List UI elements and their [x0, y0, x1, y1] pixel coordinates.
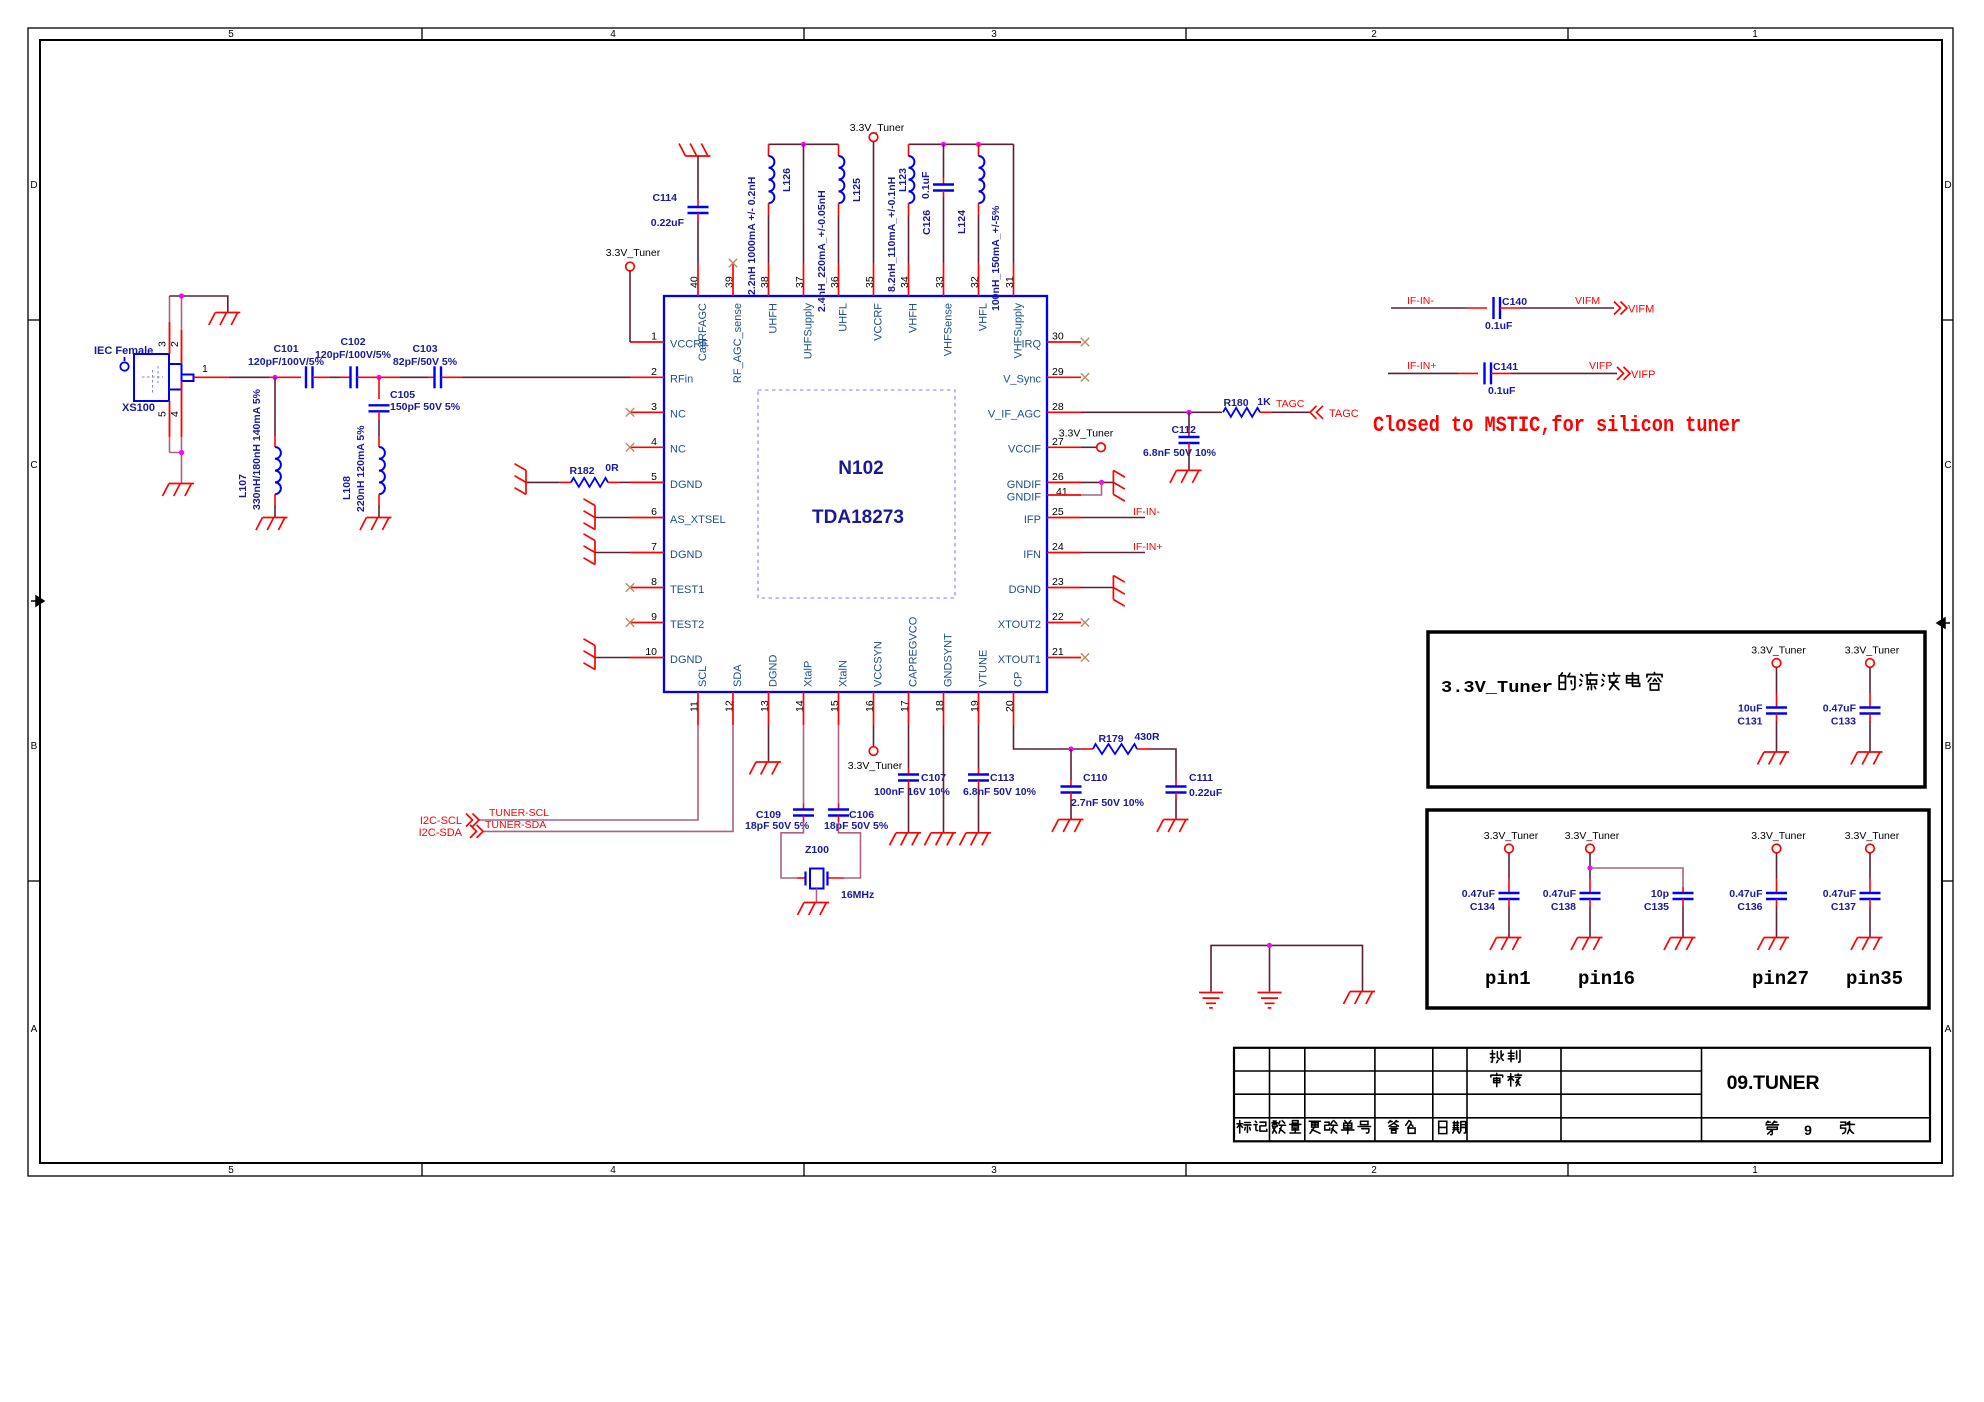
svg-text:5: 5 [228, 1165, 234, 1176]
port VIFM [1614, 302, 1627, 315]
no-connect pin21 [1081, 653, 1089, 661]
svg-text:CAPREGVCO: CAPREGVCO [908, 616, 920, 687]
svg-text:VIFM: VIFM [1575, 295, 1600, 307]
capacitor C103 [435, 366, 442, 388]
svg-text:C141: C141 [1493, 361, 1518, 373]
svg-text:0.47uF: 0.47uF [1823, 888, 1857, 900]
ground C110 [1052, 820, 1084, 833]
svg-text:330nH/180nH 140mA 5%: 330nH/180nH 140mA 5% [251, 388, 263, 510]
svg-text:22: 22 [1052, 611, 1064, 623]
wire SCL run [478, 725, 698, 820]
wire C102 to C103 [357, 376, 379, 378]
wire C113 to ground [978, 781, 980, 788]
wire pin20 CP run [1014, 725, 1082, 749]
capacitor C109 [793, 810, 814, 816]
svg-text:3.3V_Tuner: 3.3V_Tuner [1484, 830, 1539, 842]
svg-text:82pF/50V 5%: 82pF/50V 5% [393, 356, 458, 368]
wire ground tie bus [1211, 945, 1363, 991]
node shield bottom [179, 450, 184, 455]
svg-text:3: 3 [991, 29, 997, 40]
svg-text:3.3V_Tuner: 3.3V_Tuner [1845, 830, 1900, 842]
wire pin23 to ground [1081, 587, 1113, 589]
svg-text:1: 1 [202, 363, 208, 375]
wire C126 to pin33 [943, 191, 945, 198]
capacitor C113 [968, 775, 989, 781]
svg-text:120pF/100V/5%: 120pF/100V/5% [315, 349, 392, 361]
ground C112 [1170, 470, 1202, 483]
svg-text:0.22uF: 0.22uF [1189, 787, 1223, 799]
svg-text:VCCSYN: VCCSYN [873, 641, 885, 687]
svg-text:pin35: pin35 [1846, 968, 1903, 990]
svg-text:7: 7 [651, 541, 657, 553]
ground pin13 [750, 762, 782, 775]
svg-text:2: 2 [1371, 29, 1377, 40]
svg-text:D: D [1944, 180, 1951, 191]
svg-text:Closed to MSTIC,for silicon tu: Closed to MSTIC,for silicon tuner [1373, 413, 1741, 438]
svg-text:GNDIF: GNDIF [1007, 479, 1042, 491]
ground pin23 fork [1113, 576, 1125, 607]
inductor L125 stub top [838, 144, 840, 156]
wire 3.3V to pin35 [873, 142, 875, 263]
capacitor C111 [1166, 787, 1187, 793]
svg-text:120pF/100V/5%: 120pF/100V/5% [248, 356, 325, 368]
svg-text:C137: C137 [1831, 901, 1856, 913]
svg-text:1K: 1K [1257, 396, 1271, 408]
wire C105 to L108 [378, 411, 380, 420]
capacitor C131 [1766, 708, 1787, 714]
svg-text:24: 24 [1052, 541, 1064, 553]
zone labels [30, 29, 1951, 1176]
svg-text:8.2nH_110mA_+/-0.1nH: 8.2nH_110mA_+/-0.1nH [886, 177, 898, 292]
note box 3.3V filter caps [1428, 632, 1925, 787]
connector XS100 inner dashed marks [142, 366, 163, 393]
IC pin stubs right [1047, 342, 1081, 658]
svg-text:XtalN: XtalN [838, 660, 850, 687]
wire L125 to pin36 [838, 203, 840, 215]
svg-text:4: 4 [651, 436, 657, 448]
wire C114 to pin40 [697, 213, 699, 221]
IC pin stubs left [630, 342, 664, 658]
node CP junction [1068, 746, 1073, 751]
inductor L124 [979, 156, 985, 203]
svg-text:VCCRF: VCCRF [873, 303, 885, 341]
svg-text:IF-IN-: IF-IN- [1407, 295, 1434, 307]
svg-text:SCL: SCL [697, 666, 709, 687]
svg-text:C134: C134 [1470, 901, 1495, 913]
svg-text:0.47uF: 0.47uF [1729, 888, 1763, 900]
svg-text:0R: 0R [605, 462, 619, 474]
ground pin7 wire [595, 552, 630, 554]
svg-text:pin16: pin16 [1578, 968, 1635, 990]
svg-text:0.47uF: 0.47uF [1823, 703, 1857, 715]
svg-text:VHFSupply: VHFSupply [1013, 303, 1025, 359]
svg-text:DGND: DGND [768, 655, 780, 687]
svg-text:DGND: DGND [670, 479, 702, 491]
no-connect pin8 [626, 583, 634, 591]
svg-text:RFin: RFin [670, 374, 693, 386]
wire C135 to ground [1682, 899, 1684, 906]
svg-text:VIFP: VIFP [1631, 369, 1655, 381]
wire pin26 to ground [1081, 481, 1113, 483]
no-connect pin39 [729, 259, 737, 267]
svg-text:C138: C138 [1551, 901, 1576, 913]
title sheet number [1766, 1121, 1779, 1135]
svg-text:3.3V_Tuner: 3.3V_Tuner [1565, 830, 1620, 842]
node C138 link [1587, 865, 1592, 870]
wire connector shield verticals [169, 296, 171, 354]
svg-text:2: 2 [651, 366, 657, 378]
svg-text:28: 28 [1052, 401, 1064, 413]
wire C134 to ground [1508, 899, 1510, 907]
wire C136 upper [1776, 853, 1778, 879]
svg-text:3.3V_Tuner: 3.3V_Tuner [848, 760, 903, 772]
svg-text:10: 10 [645, 646, 657, 658]
svg-text:TAGC: TAGC [1276, 398, 1305, 410]
svg-text:C: C [1944, 460, 1951, 471]
svg-text:UHFSupply: UHFSupply [803, 303, 815, 360]
connector XS100 IEC Female body [134, 354, 194, 401]
svg-text:VHFL: VHFL [978, 303, 990, 331]
ground pin19 [960, 833, 992, 846]
capacitor C138 [1580, 893, 1601, 899]
svg-text:0.47uF: 0.47uF [1462, 888, 1496, 900]
svg-text:CP: CP [1013, 672, 1025, 687]
capacitor C110 [1061, 787, 1082, 793]
ground earth left [1199, 993, 1223, 1008]
svg-text:D: D [30, 180, 37, 191]
svg-text:430R: 430R [1134, 731, 1160, 743]
wire L124 to pin32 [978, 203, 980, 215]
svg-text:26: 26 [1052, 471, 1064, 483]
svg-text:4: 4 [169, 411, 181, 417]
wire pin17 to C107 [908, 725, 910, 768]
svg-text:C101: C101 [273, 343, 298, 355]
svg-text:DGND: DGND [670, 654, 702, 666]
svg-text:3.3V_Tuner: 3.3V_Tuner [1441, 678, 1553, 697]
node GNDIF junction [1099, 480, 1104, 485]
port VIFP [1617, 367, 1630, 380]
capacitor C107 [898, 775, 919, 781]
svg-text:I2C-SDA: I2C-SDA [419, 827, 463, 839]
node top bus pin33 [941, 142, 946, 147]
svg-text:V_Sync: V_Sync [1003, 374, 1041, 386]
wire IF-IN- to C140 [1391, 307, 1467, 309]
svg-text:C133: C133 [1831, 716, 1856, 728]
svg-text:R180: R180 [1223, 397, 1248, 409]
svg-text:C103: C103 [412, 343, 437, 355]
capacitor C133 [1860, 708, 1881, 714]
ground pin10 wire [595, 657, 630, 659]
svg-text:09.TUNER: 09.TUNER [1727, 1072, 1820, 1094]
wire L126 to pin38 [768, 203, 770, 215]
svg-text:150pF 50V 5%: 150pF 50V 5% [390, 401, 461, 413]
ground connector top [209, 313, 241, 326]
capacitor C126 [933, 185, 954, 191]
node top bus pin32 [976, 142, 981, 147]
svg-text:1: 1 [1752, 1165, 1758, 1176]
svg-text:VHFH: VHFH [908, 303, 920, 333]
wire C136 to ground [1776, 899, 1778, 907]
wire pin31 riser [1013, 144, 1015, 263]
svg-text:41: 41 [1056, 486, 1068, 498]
wire C140 to VIFM port [1500, 307, 1520, 309]
svg-text:NC: NC [670, 444, 686, 456]
svg-text:pin1: pin1 [1485, 968, 1531, 990]
svg-text:C112: C112 [1171, 424, 1196, 436]
ground GNDIF fork [1113, 470, 1125, 501]
wire pin28 to R180 [1081, 411, 1222, 413]
wire SDA run [482, 725, 733, 831]
svg-text:UHFH: UHFH [768, 303, 780, 334]
ground C138 [1571, 938, 1603, 951]
wire crystal to ground [816, 889, 818, 903]
svg-text:1: 1 [1752, 29, 1758, 40]
svg-text:18pF 50V 5%: 18pF 50V 5% [745, 820, 810, 832]
no-connect pin30 [1081, 338, 1089, 346]
svg-text:C114: C114 [652, 192, 677, 204]
svg-text:pin27: pin27 [1752, 968, 1809, 990]
svg-text:Z100: Z100 [805, 844, 829, 856]
IC pin names left side [670, 338, 726, 666]
svg-text:C136: C136 [1737, 901, 1762, 913]
svg-text:GNDSYNT: GNDSYNT [943, 633, 955, 687]
svg-text:C113: C113 [990, 772, 1015, 784]
inductor L124 stub top [978, 144, 980, 156]
svg-text:XS100: XS100 [122, 402, 155, 414]
ground pin18 [925, 833, 957, 846]
wire C138 to ground [1589, 899, 1591, 907]
wire C137 to ground [1869, 899, 1871, 907]
svg-text:NC: NC [670, 409, 686, 421]
inductor L107 branch wire [274, 377, 276, 436]
wire C126 upper [943, 144, 945, 178]
wire L107 to ground [274, 494, 276, 505]
svg-text:IF-IN+: IF-IN+ [1407, 360, 1436, 372]
svg-text:SDA: SDA [732, 664, 744, 687]
port TAGC [1310, 406, 1323, 419]
wire pin41 jog [1081, 482, 1102, 495]
node V_IF_AGC junction [1186, 410, 1191, 415]
svg-text:TUNER-SDA: TUNER-SDA [485, 819, 546, 831]
svg-text:6.8nF 50V 10%: 6.8nF 50V 10% [963, 786, 1037, 798]
wire pin13 to ground [768, 725, 770, 762]
wire C131 upper [1776, 668, 1778, 694]
svg-text:3.3V_Tuner: 3.3V_Tuner [606, 247, 661, 259]
wire C110 branch [1070, 749, 1072, 780]
svg-text:3.3V_Tuner: 3.3V_Tuner [1059, 428, 1114, 440]
wire pin14 to C109 [803, 725, 805, 804]
wire shield bottom to ground [170, 453, 182, 484]
capacitor C101 [306, 366, 313, 388]
ground C111 [1157, 820, 1189, 833]
svg-text:3.3V_Tuner: 3.3V_Tuner [850, 122, 905, 134]
svg-text:B: B [1945, 741, 1952, 752]
svg-text:GNDIF: GNDIF [1007, 492, 1042, 504]
ground L108 [360, 518, 392, 531]
ground chassis right [1344, 992, 1376, 1005]
svg-text:TUNER-SCL: TUNER-SCL [489, 807, 549, 819]
ground C136 [1758, 938, 1790, 951]
svg-text:6.8nF 50V 10%: 6.8nF 50V 10% [1143, 447, 1217, 459]
ground pin6 wire [595, 517, 630, 519]
wire C138 to C135 [1590, 868, 1683, 887]
svg-text:IEC Female: IEC Female [94, 345, 153, 357]
node shield top [179, 293, 184, 298]
wire C133 upper [1869, 668, 1871, 694]
wire L108 to ground [378, 494, 380, 505]
inductor L123 [909, 156, 915, 203]
svg-text:DGND: DGND [1009, 584, 1041, 596]
IC pin stubs top [698, 263, 1014, 296]
wire pin24 IFN [1081, 552, 1145, 554]
svg-text:TEST2: TEST2 [670, 619, 704, 631]
svg-text:CapRFAGC: CapRFAGC [697, 303, 709, 361]
wire C137 upper [1869, 853, 1871, 879]
wire C112 branch [1188, 412, 1190, 430]
wire pin19 to C113 [978, 725, 980, 768]
svg-text:N102: N102 [838, 458, 883, 479]
svg-text:2: 2 [169, 341, 181, 347]
svg-text:C105: C105 [390, 389, 415, 401]
svg-text:30: 30 [1052, 331, 1064, 343]
svg-text:2.2nH 1000mA +/- 0.2nH: 2.2nH 1000mA +/- 0.2nH [746, 177, 758, 295]
wire R180 to TAGC port [1260, 411, 1272, 413]
svg-text:100nH_150mA_+/-5%: 100nH_150mA_+/-5% [990, 205, 1002, 311]
svg-text:C135: C135 [1644, 901, 1669, 913]
svg-text:R179: R179 [1098, 733, 1123, 745]
connector XS100 symbol circle [120, 357, 128, 371]
wire C106 to crystal [838, 816, 840, 823]
svg-text:VCCIF: VCCIF [1008, 444, 1041, 456]
svg-text:L125: L125 [851, 178, 863, 202]
wire C138 upper [1589, 853, 1591, 879]
resistor R180 [1223, 408, 1260, 417]
power 3.3V_Tuner pin16 [873, 725, 875, 747]
svg-text:AS_XTSEL: AS_XTSEL [670, 514, 726, 526]
svg-text:IFP: IFP [1024, 514, 1041, 526]
capacitor C114 [688, 207, 709, 213]
capacitor C137 [1860, 893, 1881, 899]
wire C134 upper [1508, 853, 1510, 879]
svg-text:9: 9 [651, 611, 657, 623]
svg-text:C107: C107 [921, 772, 946, 784]
svg-text:TDA18273: TDA18273 [812, 507, 904, 528]
frame mid arrows [31, 596, 44, 606]
svg-text:A: A [1945, 1024, 1952, 1035]
ground C114 top [679, 144, 711, 157]
svg-text:100nF 16V 10%: 100nF 16V 10% [874, 786, 951, 798]
svg-text:0.1uF: 0.1uF [920, 171, 932, 199]
svg-text:0.47uF: 0.47uF [1543, 888, 1577, 900]
inductor L123 stub top [908, 144, 910, 156]
node RF junction C101 [272, 375, 277, 380]
svg-text:10uF: 10uF [1738, 703, 1763, 715]
svg-text:23: 23 [1052, 576, 1064, 588]
svg-text:21: 21 [1052, 646, 1064, 658]
svg-text:TEST1: TEST1 [670, 584, 704, 596]
svg-text:3: 3 [991, 1165, 997, 1176]
svg-text:25: 25 [1052, 506, 1064, 518]
capacitor C102 [351, 366, 358, 388]
svg-text:L108: L108 [341, 476, 353, 500]
crystal Z100 [806, 869, 828, 889]
title block bottom labels [1237, 1121, 1251, 1133]
svg-text:9: 9 [1804, 1122, 1812, 1138]
svg-text:IF-IN+: IF-IN+ [1133, 541, 1162, 553]
svg-text:10p: 10p [1651, 888, 1669, 900]
no-connect pin29 [1081, 373, 1089, 381]
IC pin stubs bottom [698, 692, 1014, 725]
svg-text:2.4nH_220mA_+/-0.05nH: 2.4nH_220mA_+/-0.05nH [816, 190, 828, 312]
svg-text:L107: L107 [237, 474, 249, 498]
ground C133 [1851, 752, 1883, 765]
wire C101 to C102 [313, 376, 331, 378]
IC U-N102 TDA18273 body [664, 296, 1047, 692]
svg-text:L124: L124 [956, 210, 968, 234]
wire 3.3V to pin1 [629, 271, 631, 342]
wire pin18 to ground [943, 725, 945, 833]
svg-text:16MHz: 16MHz [841, 889, 874, 901]
ground Z100 [798, 903, 830, 916]
resistor R179 [1093, 744, 1137, 754]
svg-text:XTOUT1: XTOUT1 [998, 654, 1041, 666]
svg-text:C140: C140 [1502, 296, 1527, 308]
svg-text:C131: C131 [1737, 716, 1762, 728]
svg-text:4: 4 [610, 1165, 616, 1176]
svg-text:C: C [30, 460, 37, 471]
svg-text:C126: C126 [921, 210, 933, 235]
wire C112 to ground [1188, 443, 1190, 450]
svg-text:VTUNE: VTUNE [978, 650, 990, 687]
svg-text:5: 5 [157, 411, 169, 417]
node RF junction C105 [376, 375, 381, 380]
capacitor C136 [1766, 893, 1787, 899]
inductor L125 [839, 156, 845, 203]
border frame [28, 28, 1953, 1176]
inductor L107 [275, 447, 281, 494]
wire L123 to pin34 [908, 203, 910, 215]
svg-text:3.3V_Tuner: 3.3V_Tuner [1751, 830, 1806, 842]
svg-text:6: 6 [651, 506, 657, 518]
inductor L126 stub top [768, 144, 770, 156]
wire pin25 IFP [1081, 517, 1145, 519]
wire C141 to VIFP port [1491, 372, 1511, 374]
svg-text:IFN: IFN [1023, 549, 1041, 561]
capacitor C141 [1485, 362, 1492, 384]
svg-text:VIFP: VIFP [1589, 360, 1612, 372]
svg-text:3.3V_Tuner: 3.3V_Tuner [1751, 645, 1806, 657]
ground connector bottom [163, 484, 195, 497]
svg-text:RF_AGC_sense: RF_AGC_sense [732, 303, 744, 383]
note box pin filter caps [1427, 810, 1929, 1008]
svg-text:0.22uF: 0.22uF [651, 217, 685, 229]
no-connect pin9 [626, 618, 634, 626]
wire pin37 riser [803, 144, 805, 263]
svg-text:C102: C102 [340, 336, 365, 348]
capacitor C135 [1673, 893, 1694, 899]
no-connect pin4 [626, 443, 634, 451]
inductor L126 [769, 156, 775, 203]
wire top bus VHF [909, 143, 1014, 145]
ground pin17 [890, 833, 922, 846]
wire shield top to ground [170, 296, 228, 313]
wire C133 to ground [1869, 714, 1871, 722]
ground L107 [256, 518, 288, 531]
svg-text:I2C-SCL: I2C-SCL [420, 815, 462, 827]
wire RF pin1 to C101 [194, 376, 230, 378]
wire C103 to IC pin2 [441, 376, 462, 378]
ground C134 [1490, 938, 1522, 951]
